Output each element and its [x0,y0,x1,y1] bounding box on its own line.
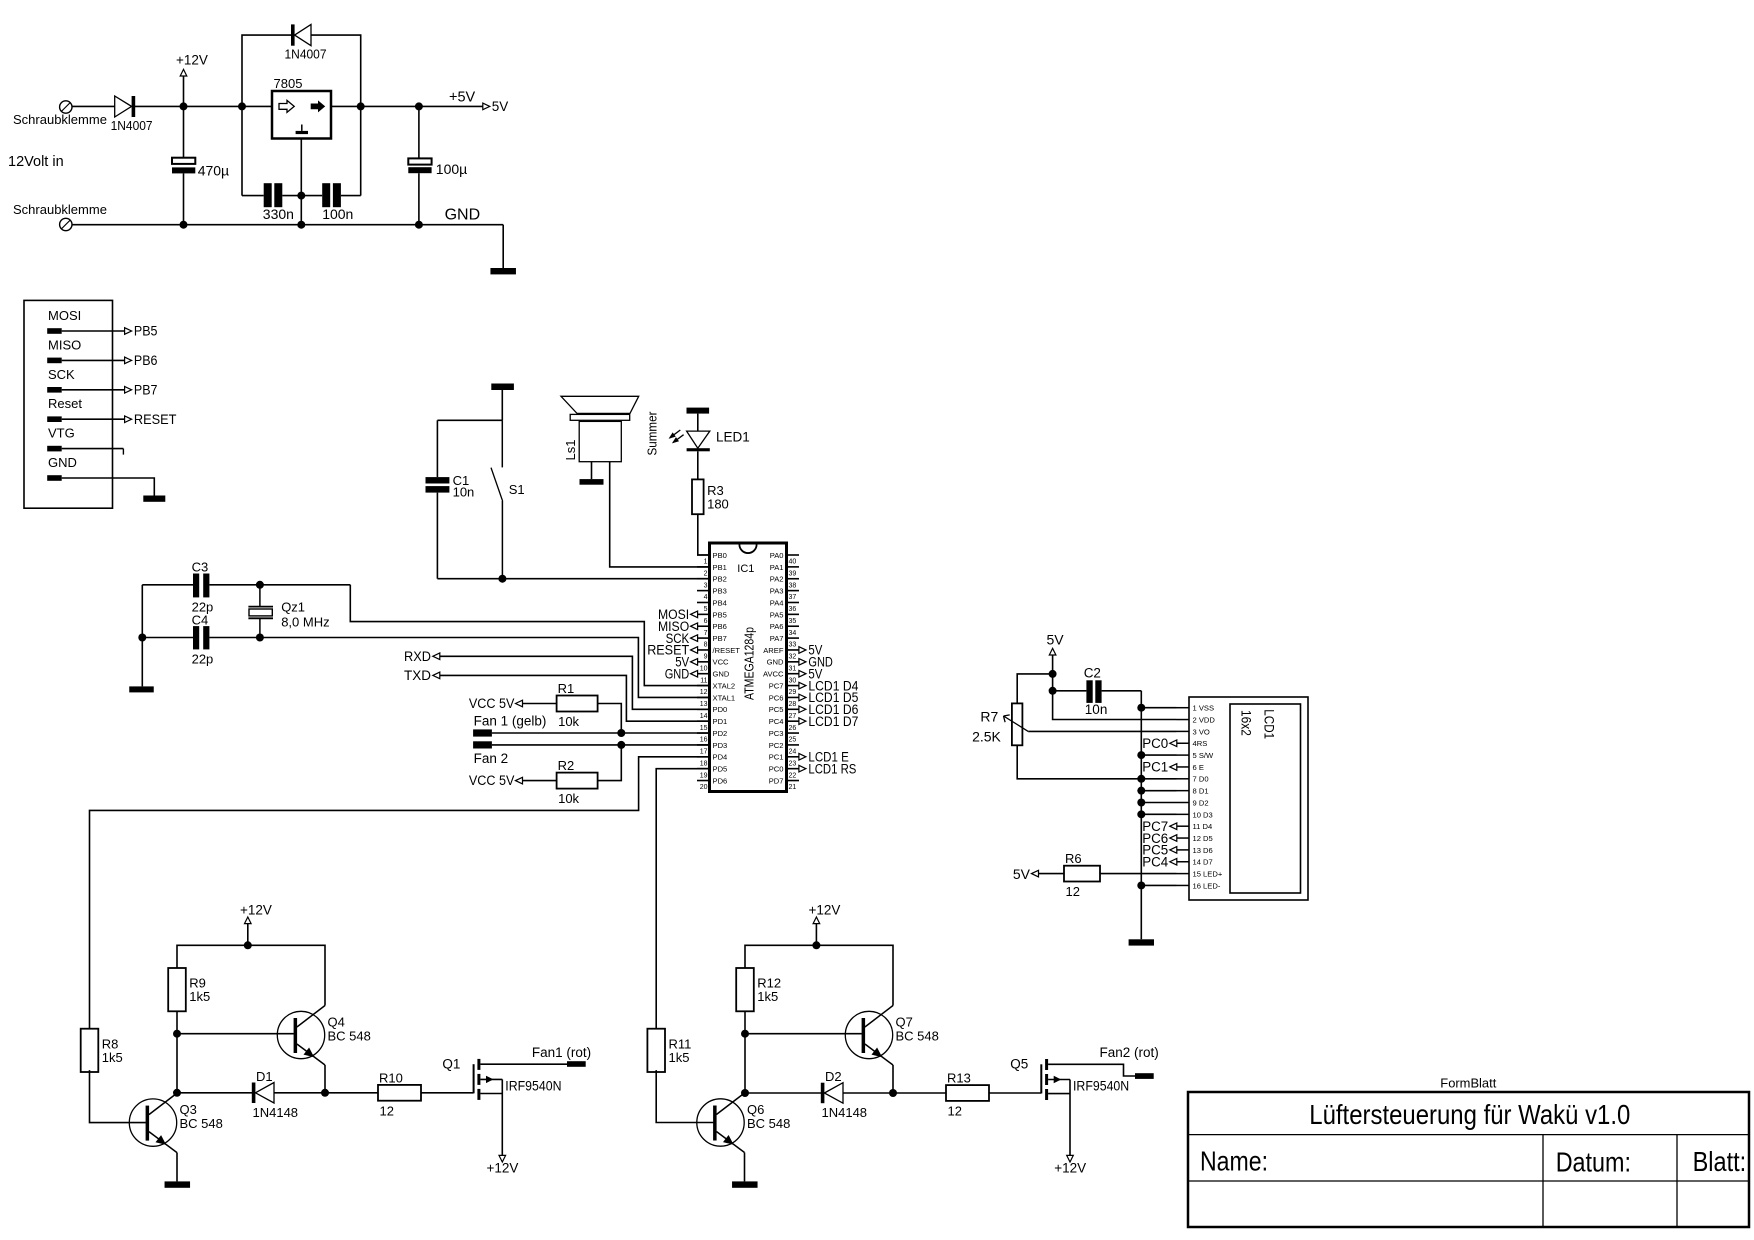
diode D2 1N4007 (reverse protection across 7805) [291,24,295,45]
svg-text:Q4: Q4 [328,1015,345,1030]
svg-text:21: 21 [789,784,797,791]
crystal Qz1 8,0 MHz [248,606,273,608]
wire PD4 to Q3 stage [90,757,710,1029]
junction [617,741,625,749]
ground [129,686,154,692]
junction [297,221,305,229]
svg-text:16: 16 [700,737,708,744]
wire [437,419,502,421]
junction [498,575,506,583]
wire [62,418,125,420]
wire bypass-loop left [242,35,291,196]
junction [244,941,252,949]
resistor R2 10k [557,773,598,789]
svg-text:TXD: TXD [404,668,431,683]
svg-text:BC 548: BC 548 [328,1029,371,1044]
IC1 pin 7 PB6 [697,625,710,627]
junction [1137,810,1145,818]
IC1 pin 10 VCC [697,661,710,663]
LCD1 pin 2 VDD [1177,719,1190,721]
svg-text:XTAL1: XTAL1 [713,693,736,702]
wire [436,420,438,477]
svg-text:4: 4 [704,594,708,601]
IC1 pin 38 PA2 [787,578,800,580]
wire [62,478,155,496]
wire [177,1092,252,1094]
svg-text:Schraubklemme: Schraubklemme [13,202,107,217]
ground [580,479,604,485]
+12V supply arrow (down) [1067,1155,1074,1162]
svg-text:PD3: PD3 [713,741,728,750]
wire [501,1079,503,1155]
svg-text:PC0: PC0 [769,765,784,774]
svg-text:LED1: LED1 [716,430,750,445]
net flag PC6 on LCD pin 12 [1170,835,1177,842]
wire [282,195,301,197]
svg-text:22: 22 [789,772,797,779]
svg-text:40: 40 [789,559,797,566]
svg-text:5: 5 [704,606,708,613]
wire R3 to PB0 [698,514,710,555]
IC1 pin 17 PD3 [697,744,710,746]
svg-text:R6: R6 [1065,851,1082,866]
svg-text:6: 6 [704,618,708,625]
svg-text:29: 29 [789,689,797,696]
wire [523,703,557,705]
IC1 pin 26 PC4 [787,720,800,722]
LCD1 pin 4 4RS [1177,742,1190,744]
svg-text:+12V: +12V [487,1161,519,1176]
svg-text:Fan1 (rot): Fan1 (rot) [532,1045,591,1060]
svg-text:AREF: AREF [763,646,784,655]
svg-text:PA6: PA6 [770,622,784,631]
wire [301,195,322,197]
svg-text:GND: GND [665,666,690,681]
svg-text:AVCC: AVCC [763,670,784,679]
junction [297,192,305,200]
svg-text:PC1: PC1 [1142,760,1168,775]
svg-text:1N4148: 1N4148 [253,1105,299,1120]
svg-text:PC2: PC2 [769,741,784,750]
svg-text:14: 14 [700,713,708,720]
svg-text:PA5: PA5 [770,610,784,619]
wire [62,330,125,332]
wire [135,105,272,107]
capacitor C5 470µ (electrolytic) [172,158,195,164]
net flag LCD1 D4 on pin 29 [799,682,806,689]
svg-text:+12V: +12V [240,903,272,918]
diode D1 1N4007 (series input) [115,96,132,117]
svg-text:IRF9540N: IRF9540N [505,1078,561,1093]
svg-text:PA1: PA1 [770,563,784,572]
svg-text:13 D6: 13 D6 [1193,846,1213,855]
svg-text:Datum:: Datum: [1556,1146,1631,1177]
wire [1053,690,1087,692]
svg-text:35: 35 [789,618,797,625]
wire VO wiper [1028,730,1176,732]
net flag 5V on pin 30 [799,670,806,677]
svg-text:PA0: PA0 [770,551,784,560]
svg-text:1k5: 1k5 [669,1050,690,1065]
svg-text:PD2: PD2 [713,729,728,738]
wire [421,1092,474,1094]
svg-text:+12V: +12V [176,53,208,68]
IC1 pin 34 PA6 [787,625,800,627]
svg-text:1k5: 1k5 [757,989,778,1004]
wire [247,924,249,946]
svg-text:+5V: +5V [449,90,476,106]
junction [321,1089,329,1097]
svg-text:IC1: IC1 [737,563,754,575]
junction [812,941,820,949]
resistor R12 1k5 [736,968,754,1011]
svg-text:GND: GND [767,658,784,667]
svg-text:Reset: Reset [48,396,82,411]
svg-text:ATMEGA1284p: ATMEGA1284p [743,627,757,700]
wire R6 to LED+ [1100,873,1177,875]
wire [697,451,699,479]
net flag 5V [483,103,490,110]
svg-text:R13: R13 [947,1071,971,1086]
LCD1 pin 14 D7 [1177,861,1190,863]
diode D2 1N4148 [821,1083,825,1104]
svg-text:38: 38 [789,582,797,589]
svg-text:PB3: PB3 [713,587,727,596]
wire LCD pin 5 to ground bus [1141,754,1176,756]
wire [300,196,302,225]
IC1 pin 19 PD5 [697,768,710,770]
LCD1 pin 15 LED+ [1177,873,1190,875]
svg-text:PD5: PD5 [713,765,728,774]
svg-text:Schraubklemme: Schraubklemme [13,112,107,127]
svg-text:13: 13 [700,701,708,708]
junction [741,1089,749,1097]
switch S1 [501,420,503,467]
svg-text:2: 2 [704,570,708,577]
svg-text:9 D2: 9 D2 [1193,798,1209,807]
IC1 pin 16 PD2 [697,732,710,734]
svg-text:Lüftersteuerung für Wakü v1.0: Lüftersteuerung für Wakü v1.0 [1309,1099,1630,1130]
svg-text:PC5: PC5 [769,705,784,714]
svg-text:D2: D2 [825,1069,842,1084]
wire RXD to PD0 [440,656,710,709]
svg-text:12 D5: 12 D5 [1193,834,1213,843]
LCD1 pin 3 VO [1177,730,1190,732]
IC1 pin 5 PB4 [697,601,710,603]
wire [142,637,193,639]
IC1 pin 31 GND [787,661,800,663]
LCD1 pin 10 D3 [1177,813,1190,815]
wire [142,584,193,586]
svg-text:10n: 10n [453,485,475,500]
IC IC1 ATMEGA1284p [710,543,787,792]
resistor R13 12 [946,1085,989,1101]
svg-text:2 VDD: 2 VDD [1193,715,1216,724]
svg-text:10k: 10k [558,791,579,806]
wire drain to Fan1 [480,1063,567,1065]
net flag LCD1 D7 on pin 26 [799,718,806,725]
potentiometer R7 2.5K [1012,703,1023,745]
svg-text:R2: R2 [558,758,575,773]
svg-text:PC3: PC3 [769,729,784,738]
ground [165,1181,191,1187]
IC1 pin 20 PD6 [697,780,710,782]
svg-text:39: 39 [789,570,797,577]
ground [732,1181,758,1187]
svg-text:PA7: PA7 [770,634,784,643]
net flag GND on pin 31 [799,659,806,666]
svg-text:VCC: VCC [713,658,730,667]
svg-text:14 D7: 14 D7 [1193,858,1213,867]
net flag MISO on pin 7 [691,623,698,630]
pin Fan1 tach [473,729,492,736]
svg-text:Blatt:: Blatt: [1693,1146,1747,1177]
speaker Ls1 (Summer / buzzer) [561,396,639,413]
wire +5V rail [331,105,483,107]
net flag PC0 on LCD pin 4 [1170,740,1177,747]
svg-text:BC 548: BC 548 [747,1116,790,1131]
wire [598,745,622,781]
wire [843,1092,946,1094]
voltage regulator IC2 7805 [272,91,331,139]
svg-text:3 VO: 3 VO [1193,727,1210,736]
IC1 pin 27 PC5 [787,708,800,710]
svg-text:30: 30 [789,677,797,684]
svg-text:18: 18 [700,760,708,767]
wire [90,1070,146,1123]
capacitor C8 100µ (electrolytic) [408,158,431,164]
svg-text:Q1: Q1 [442,1056,460,1071]
wire [72,105,115,107]
wire [62,448,124,450]
junction [415,221,423,229]
svg-text:2.5K: 2.5K [972,728,1001,744]
LCD1 pin 9 D2 [1177,802,1190,804]
svg-text:1N4007: 1N4007 [111,118,153,133]
screw terminal X1 (Schraubklemme, +12V in) [60,101,72,113]
wire [176,1153,178,1182]
svg-text:BC 548: BC 548 [180,1116,223,1131]
wire [1069,1080,1071,1156]
svg-text:S1: S1 [509,482,525,497]
wire LED- to ground bus [1141,884,1176,886]
svg-text:36: 36 [789,606,797,613]
svg-text:PB4: PB4 [713,598,727,607]
svg-text:4RS: 4RS [1193,739,1208,748]
svg-text:10n: 10n [1085,702,1108,717]
junction [889,1089,897,1097]
junction [180,221,188,229]
svg-text:LCD1 D7: LCD1 D7 [808,714,858,729]
IC1 pin 40 PA0 [787,554,800,556]
svg-text:PD1: PD1 [713,717,728,726]
wire [62,389,125,391]
LCD1 pin 7 D0 [1177,778,1190,780]
wire [209,637,260,639]
wire XTAL2 net [260,584,350,586]
transistor Q3 BC 548 [129,1099,176,1146]
wire drain to Fan2 [1048,1064,1135,1076]
svg-text:470µ: 470µ [198,163,229,179]
svg-text:7805: 7805 [274,76,303,91]
LCD1 pin 1 VSS [1177,707,1190,709]
svg-text:8: 8 [704,642,708,649]
wire LCD pin 9 to ground bus [1141,802,1176,804]
+12V supply arrow (down) [499,1155,506,1162]
svg-text:GND: GND [445,207,481,224]
svg-text:16 LED-: 16 LED- [1193,881,1221,890]
svg-text:11 D4: 11 D4 [1193,822,1213,831]
ground [687,408,710,414]
svg-text:31: 31 [789,665,797,672]
svg-text:PB6: PB6 [134,353,158,368]
svg-text:Fan 2: Fan 2 [474,751,509,766]
svg-text:22p: 22p [192,651,214,666]
svg-text:16x2: 16x2 [1238,710,1253,736]
wire source/bulk [480,1078,502,1080]
junction [1049,670,1057,678]
svg-text:PD7: PD7 [769,776,784,785]
wire [183,106,185,157]
svg-text:BC 548: BC 548 [896,1029,939,1044]
junction R12/Q7 base node [741,1030,749,1038]
IC1 pin 14 PD0 [697,708,710,710]
IC1 pin 15 PD1 [697,720,710,722]
svg-text:PC0: PC0 [1142,736,1168,751]
wire TXD to PD1 [440,675,710,721]
svg-text:8 D1: 8 D1 [1193,787,1209,796]
svg-text:PA2: PA2 [770,575,784,584]
resistor R3 180 [692,479,704,514]
svg-text:SCK: SCK [48,367,75,382]
junction [617,729,625,737]
svg-text:32: 32 [789,654,797,661]
svg-text:100µ: 100µ [436,161,467,177]
net flag RESET [125,416,132,423]
svg-text:IRF9540N: IRF9540N [1073,1079,1129,1094]
LCD1 pin 8 D1 [1177,790,1190,792]
IC1 pin 21 PD7 [787,780,800,782]
wire [745,1033,862,1035]
IC1 pin 13 XTAL1 [697,696,710,698]
wire [591,462,593,479]
IC1 pin 33 PA7 [787,637,800,639]
svg-text:Fan2 (rot): Fan2 (rot) [1100,1045,1159,1060]
IC1 pin 32 AREF [787,649,800,651]
svg-text:FormBlatt: FormBlatt [1440,1076,1496,1091]
svg-text:12: 12 [1066,884,1080,899]
IC1 pin 30 AVCC [787,673,800,675]
svg-text:5 S/W: 5 S/W [1193,751,1215,760]
svg-text:1N4148: 1N4148 [822,1105,868,1120]
LED LED1 [687,431,710,448]
svg-text:12: 12 [700,689,708,696]
wire [744,1153,746,1182]
wire [502,225,504,268]
IC1 pin 36 PA4 [787,601,800,603]
junction [1137,751,1145,759]
svg-text:RESET: RESET [134,412,177,427]
wire [1052,655,1054,691]
svg-text:VCC 5V: VCC 5V [469,773,515,788]
junction [173,1089,181,1097]
wire XTAL1 net [260,638,710,698]
wire [892,1065,894,1093]
wire [501,390,503,420]
junction [138,634,146,642]
svg-text:33: 33 [789,642,797,649]
svg-text:R7: R7 [980,708,998,724]
wire [341,195,361,197]
net flag PC4 on LCD pin 14 [1170,858,1177,865]
svg-text:Fan 1 (gelb): Fan 1 (gelb) [474,714,547,729]
svg-text:PD0: PD0 [713,705,728,714]
junction [256,581,264,589]
svg-text:C2: C2 [1084,666,1101,681]
svg-text:7: 7 [704,630,708,637]
wire PD5 to Q6 stage [656,769,709,1029]
IC1 pin 28 PC6 [787,696,800,698]
svg-text:330n: 330n [263,206,294,222]
svg-text:GND: GND [713,670,730,679]
svg-text:1 VSS: 1 VSS [1193,704,1215,713]
transistor Q7 BC 548 [845,1011,892,1058]
svg-text:7 D0: 7 D0 [1193,775,1209,784]
svg-text:PB0: PB0 [713,551,727,560]
svg-text:28: 28 [789,701,797,708]
junction R9/Q4 base node [173,1030,181,1038]
wire [418,106,420,158]
wire GND rail [72,224,503,226]
svg-text:20: 20 [700,784,708,791]
IC1 pin 1 PB0 [697,554,710,556]
net flag SCK on pin 8 [691,635,698,642]
diode D1 1N4148 [252,1083,256,1104]
svg-text:Ls1: Ls1 [563,440,578,461]
wire [176,1011,178,1093]
IC1 pin 23 PC1 [787,756,800,758]
wire [183,173,185,224]
wire [1039,873,1065,875]
svg-text:VCC 5V: VCC 5V [469,696,515,711]
junction [1137,787,1145,795]
wire [598,704,622,734]
junction [1137,799,1145,807]
wire bypass-loop right [311,35,361,196]
svg-text:12: 12 [380,1103,394,1118]
svg-text:PB1: PB1 [713,563,727,572]
svg-text:Summer: Summer [645,411,660,456]
svg-text:12: 12 [948,1104,962,1119]
net flag PC5 on LCD pin 13 [1170,847,1177,854]
wire C2 to LCD ground bus [1102,690,1142,692]
IC1 pin 39 PA1 [787,566,800,568]
wire [324,1065,326,1093]
wire [418,173,420,225]
net flag PB6 [125,357,132,364]
capacitor C1 10n [426,477,450,483]
wire Fan1 tach to PD2 [492,732,710,734]
wire 7805 ground pin [300,139,302,196]
svg-text:19: 19 [700,772,708,779]
svg-text:10: 10 [700,665,708,672]
LCD1 pin 6 E [1177,766,1190,768]
svg-text:Q3: Q3 [180,1102,197,1117]
svg-text:PC4: PC4 [769,717,784,726]
resistor R9 1k5 [168,968,186,1011]
svg-text:RXD: RXD [404,649,431,664]
LCD1 pin 11 D4 [1177,825,1190,827]
